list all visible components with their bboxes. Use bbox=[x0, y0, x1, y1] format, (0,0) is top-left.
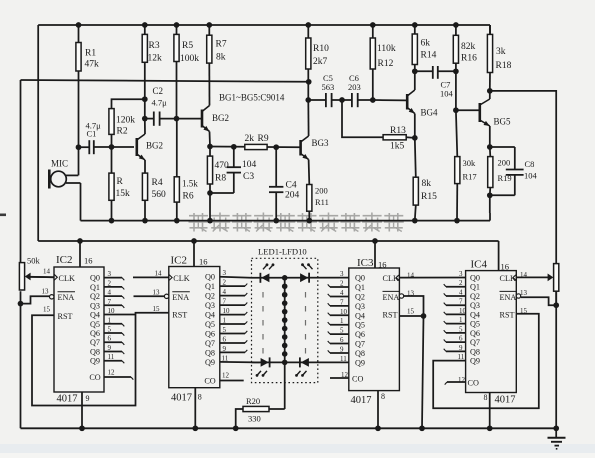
wire top supply rail bbox=[38, 24, 490, 26]
IC1 pin Q9 (11) stub bbox=[90, 353, 124, 366]
svg-text:204: 204 bbox=[285, 191, 300, 201]
svg-text:8k: 8k bbox=[422, 179, 432, 189]
wire LED column to R20 bbox=[284, 362, 286, 409]
node R9/C4 junction bbox=[273, 144, 279, 150]
svg-text:BG2: BG2 bbox=[146, 141, 163, 151]
svg-text:Q0: Q0 bbox=[470, 274, 480, 283]
capacitor C7 104 bbox=[415, 66, 456, 99]
svg-text:Q7: Q7 bbox=[355, 340, 365, 349]
svg-text:RST: RST bbox=[383, 311, 398, 320]
IC2 pin Q6 (5) stub bbox=[205, 326, 247, 339]
svg-text:R13: R13 bbox=[390, 126, 406, 136]
IC3 RST pin label bbox=[383, 308, 415, 320]
node C5-C6 mid junction bbox=[339, 97, 352, 103]
IC3 pin Q5 (1) stub bbox=[328, 317, 365, 330]
resistor R18 3k bbox=[487, 25, 511, 91]
LED bottom-left bbox=[256, 357, 270, 376]
svg-text:16: 16 bbox=[84, 256, 93, 266]
svg-text:13: 13 bbox=[42, 288, 50, 296]
resistor R17 30k bbox=[454, 110, 477, 223]
IC4 pin Q6 (5) stub bbox=[444, 325, 480, 338]
svg-text:Q4: Q4 bbox=[205, 311, 215, 320]
left edge scan mark bbox=[0, 214, 6, 217]
IC2 pin Q7 (6) stub bbox=[205, 335, 247, 348]
svg-text:R4: R4 bbox=[152, 178, 163, 188]
svg-text:CO: CO bbox=[468, 379, 479, 388]
IC1 ENA wire to ground column bbox=[18, 296, 50, 306]
capacitor C8 104 bbox=[506, 147, 538, 195]
capacitor C4 204 bbox=[269, 147, 300, 223]
svg-text:ENA: ENA bbox=[58, 293, 75, 302]
svg-text:CO: CO bbox=[204, 377, 215, 386]
svg-text:Q3: Q3 bbox=[90, 301, 100, 310]
transistor BG3 bbox=[301, 136, 329, 160]
IC1 CLK wire from pot bbox=[29, 276, 54, 278]
wire digital top rail bbox=[38, 240, 498, 242]
IC4 ENA pin label bbox=[500, 289, 528, 302]
IC2 pin16 wire bbox=[191, 238, 197, 266]
node BG5 base junction bbox=[453, 71, 479, 113]
svg-text:CLK: CLK bbox=[173, 274, 189, 283]
wire audio-out bus y80 bbox=[21, 80, 310, 82]
wire BG3 emitter down bbox=[308, 160, 311, 185]
node C7 tap bbox=[412, 65, 418, 75]
svg-text:2k: 2k bbox=[245, 134, 255, 144]
svg-text:BG3: BG3 bbox=[312, 138, 330, 148]
svg-text:1.5k: 1.5k bbox=[182, 179, 198, 189]
svg-text:16: 16 bbox=[378, 260, 387, 270]
svg-text:4017: 4017 bbox=[351, 395, 372, 406]
svg-text:110k: 110k bbox=[377, 44, 396, 54]
wire analog rail right corner to R19 bbox=[489, 213, 491, 221]
svg-text:BG5: BG5 bbox=[494, 117, 512, 127]
ground symbol bbox=[548, 428, 566, 449]
watermark gray text bbox=[189, 213, 404, 232]
resistor R1 47k bbox=[76, 25, 99, 147]
IC U2 (second 4017) box bbox=[169, 267, 220, 388]
IC4 pin Q1 (2) stub bbox=[444, 279, 480, 292]
svg-text:100k: 100k bbox=[180, 54, 199, 64]
svg-text:ENA: ENA bbox=[383, 293, 400, 302]
IC4 pin Q3 (7) stub bbox=[444, 298, 480, 311]
IC2 pin Q2 (4) stub bbox=[205, 288, 247, 301]
IC4 ENA wire bbox=[521, 291, 556, 305]
svg-text:R: R bbox=[117, 177, 124, 187]
svg-text:16: 16 bbox=[199, 257, 208, 267]
wire left border vertical (top rail to digital rail) bbox=[37, 25, 39, 241]
IC1 pin8 wire bbox=[79, 392, 85, 431]
IC3 pin Q3 (7) stub bbox=[328, 298, 365, 311]
svg-text:Q1: Q1 bbox=[355, 283, 365, 292]
transistor BG5 bbox=[480, 99, 511, 127]
svg-text:4017: 4017 bbox=[171, 393, 192, 404]
node R19 bottom junction bbox=[487, 192, 515, 213]
IC1 ENA pin label bbox=[42, 288, 76, 303]
svg-text:Q5: Q5 bbox=[90, 320, 100, 329]
resistor R6 1.5k bbox=[174, 119, 198, 224]
IC2 CLK wire bbox=[133, 276, 169, 278]
svg-text:4017: 4017 bbox=[57, 394, 78, 405]
IC U1 (first 4017) box bbox=[54, 267, 104, 392]
node R5 column C2 tap bbox=[174, 116, 201, 122]
svg-text:C3: C3 bbox=[243, 172, 254, 182]
svg-text:IC3: IC3 bbox=[357, 257, 374, 269]
resistor R19 200 bbox=[488, 147, 512, 195]
resistor R5 100k bbox=[174, 25, 199, 119]
wire BG4 collector up bbox=[414, 71, 416, 90]
svg-text:3: 3 bbox=[459, 270, 463, 278]
node junction top rail R5 bbox=[174, 22, 180, 28]
svg-text:104: 104 bbox=[440, 89, 454, 99]
transistor BG2 (first stage) bbox=[137, 134, 163, 160]
svg-text:R17: R17 bbox=[463, 172, 477, 182]
resistor R10 2k7 bbox=[306, 25, 329, 69]
node C5 line tap bbox=[305, 97, 325, 103]
LED D1 (top-left) bbox=[260, 263, 274, 282]
IC3 pin Q6 (5) stub bbox=[328, 327, 365, 340]
svg-text:R5: R5 bbox=[182, 41, 193, 51]
node audio-out bus end bbox=[306, 69, 312, 100]
svg-text:Q4: Q4 bbox=[355, 311, 365, 320]
svg-text:R8: R8 bbox=[215, 174, 226, 184]
IC4 pin Q7 (6) stub bbox=[444, 335, 480, 348]
node R13/R15 junction bbox=[412, 135, 418, 177]
wire IC1 RST feedback loop bbox=[32, 313, 169, 406]
svg-text:15: 15 bbox=[43, 306, 51, 314]
IC4 pin Q4 (10) stub bbox=[444, 307, 480, 320]
IC3 pin Q9 (11) stub bbox=[340, 355, 365, 368]
wire analog rail left corner up to MIC bbox=[80, 183, 82, 221]
resistor R3 12k bbox=[142, 25, 162, 99]
IC3 pin Q1 (2) stub bbox=[328, 280, 365, 293]
svg-text:14: 14 bbox=[520, 271, 528, 279]
capacitor C1 4.7u bbox=[79, 121, 112, 155]
svg-text:120k: 120k bbox=[116, 116, 135, 126]
svg-text:R12: R12 bbox=[378, 59, 394, 69]
svg-text:11: 11 bbox=[340, 355, 347, 363]
label IC4 4017 bbox=[484, 393, 516, 406]
bottom scanner band bbox=[0, 444, 595, 453]
svg-text:ENA: ENA bbox=[500, 293, 517, 302]
IC3 pin8 wire bbox=[375, 391, 381, 432]
IC4 CLK pin label bbox=[500, 271, 528, 283]
IC3 pin CO (12) stub bbox=[330, 371, 363, 384]
node R3/R2 tap bbox=[142, 96, 148, 118]
wire BG2a collector up bbox=[144, 119, 146, 134]
resistor R4 560 bbox=[142, 173, 166, 223]
IC1 pin Q1 (2) stub bbox=[90, 279, 124, 292]
label IC3 4017 bbox=[351, 392, 386, 406]
node R8 bottom junction bbox=[207, 190, 234, 223]
svg-text:Q2: Q2 bbox=[90, 292, 100, 301]
wire BG5 output line right bbox=[490, 91, 556, 264]
svg-text:R16: R16 bbox=[461, 54, 477, 64]
svg-text:3k: 3k bbox=[496, 47, 506, 57]
wire BG5 emitter down bbox=[489, 126, 491, 147]
node junction top rail R7 bbox=[206, 22, 212, 28]
svg-text:C4: C4 bbox=[286, 181, 297, 191]
label BG1-BG5:C9014 bbox=[219, 93, 285, 103]
svg-text:Q9: Q9 bbox=[355, 358, 365, 367]
IC3 pin Q8 (9) stub bbox=[328, 345, 365, 358]
IC4 pin Q2 (4) stub bbox=[444, 288, 480, 301]
svg-text:C1: C1 bbox=[87, 129, 97, 139]
node R12 bottom junction bbox=[370, 97, 406, 103]
svg-text:BG4: BG4 bbox=[421, 108, 439, 118]
svg-text:8: 8 bbox=[484, 393, 488, 402]
IC3 pin Q2 (4) stub bbox=[328, 289, 365, 302]
wire BG5 collector up bbox=[489, 91, 491, 99]
svg-text:30k: 30k bbox=[463, 158, 477, 168]
node BG2b emitter junction bbox=[207, 144, 245, 150]
capacitor C2 4.7u bbox=[145, 86, 177, 126]
svg-text:Q1: Q1 bbox=[470, 283, 480, 292]
potentiometer 50k bbox=[19, 256, 54, 291]
svg-text:Q6: Q6 bbox=[205, 330, 215, 339]
node junction top rail R10 bbox=[305, 22, 311, 28]
IC3 CLK wire to IC4 Q0 bbox=[399, 277, 465, 279]
resistor R2 120k bbox=[109, 99, 145, 147]
IC3 pin Q0 (3) stub bbox=[340, 270, 365, 283]
svg-text:Q9: Q9 bbox=[205, 358, 215, 367]
svg-text:4017: 4017 bbox=[495, 395, 516, 406]
svg-text:Q3: Q3 bbox=[205, 301, 215, 310]
IC1 pin Q5 (1) stub bbox=[90, 316, 124, 329]
svg-text:LED1-LFD10: LED1-LFD10 bbox=[258, 247, 307, 257]
svg-text:IC2: IC2 bbox=[171, 255, 188, 267]
node C1/R1/MIC junction bbox=[76, 144, 82, 175]
capacitor C6 203 bbox=[348, 73, 373, 107]
svg-text:ENA: ENA bbox=[172, 293, 189, 302]
svg-text:Q3: Q3 bbox=[470, 301, 480, 310]
node junction top rail R16 bbox=[453, 22, 459, 28]
svg-text:12: 12 bbox=[222, 372, 230, 380]
wire BG2a emitter down bbox=[144, 160, 146, 173]
label LED1-LFD10 bbox=[258, 247, 307, 257]
LED omitted-row marks bbox=[263, 292, 306, 354]
IC2 pin Q4 (10) stub bbox=[205, 307, 247, 320]
IC1 pin Q2 (4) stub bbox=[90, 289, 124, 302]
svg-text:BG1~BG5:C9014: BG1~BG5:C9014 bbox=[219, 93, 285, 103]
svg-text:Q7: Q7 bbox=[470, 338, 480, 347]
IC2 ENA pin label bbox=[153, 289, 190, 303]
wire digital bottom rail bbox=[21, 427, 557, 429]
svg-text:3: 3 bbox=[340, 270, 344, 278]
node R16/C7 junction bbox=[453, 68, 459, 74]
svg-text:47k: 47k bbox=[85, 60, 100, 70]
svg-text:Q2: Q2 bbox=[470, 292, 480, 301]
svg-text:Q4: Q4 bbox=[90, 311, 100, 320]
label IC3 name bbox=[357, 257, 387, 270]
wire digital rail right corner to IC4 pin16 bbox=[498, 241, 500, 271]
wire BG2b collector up bbox=[208, 63, 210, 105]
svg-text:Q2: Q2 bbox=[355, 292, 365, 301]
IC3 pin Q4 (10) stub bbox=[328, 308, 365, 321]
resistor R20 330 bbox=[233, 396, 285, 431]
svg-text:82k: 82k bbox=[461, 42, 476, 52]
IC3 CLK pin label bbox=[383, 272, 415, 284]
wire BG2b emitter down bbox=[209, 132, 212, 147]
wire BG4 emitter down bbox=[414, 114, 416, 138]
IC2 pin Q5 (1) stub bbox=[205, 317, 247, 330]
svg-text:BG2: BG2 bbox=[212, 113, 229, 123]
svg-text:Q0: Q0 bbox=[355, 274, 365, 283]
resistor R15 8k bbox=[412, 177, 437, 223]
svg-text:Q5: Q5 bbox=[470, 320, 480, 329]
svg-text:R1: R1 bbox=[85, 49, 96, 59]
node junction top rail R14 bbox=[412, 22, 418, 28]
resistor R 15k bbox=[109, 147, 130, 223]
IC1 pin Q7 (6) stub bbox=[90, 335, 124, 348]
svg-text:RST: RST bbox=[500, 311, 515, 320]
svg-text:50k: 50k bbox=[27, 256, 41, 266]
svg-text:Q4: Q4 bbox=[470, 310, 480, 319]
svg-text:Q7: Q7 bbox=[205, 339, 215, 348]
resistor R13 1k5 bbox=[342, 100, 415, 152]
resistor R11 200 bbox=[306, 185, 328, 224]
svg-text:RST: RST bbox=[172, 310, 187, 319]
IC1 pin Q3 (7) stub bbox=[90, 298, 124, 311]
IC U3 (third 4017) box bbox=[349, 268, 400, 391]
svg-text:2k7: 2k7 bbox=[313, 57, 328, 67]
svg-text:470: 470 bbox=[215, 161, 230, 171]
svg-text:R14: R14 bbox=[421, 51, 437, 61]
svg-text:Q1: Q1 bbox=[90, 283, 100, 292]
svg-text:Q8: Q8 bbox=[355, 349, 365, 358]
svg-text:Q0: Q0 bbox=[90, 274, 100, 283]
IC3 pin16 wire bbox=[372, 238, 378, 268]
svg-text:R10: R10 bbox=[313, 44, 329, 54]
svg-text:Q9: Q9 bbox=[470, 357, 480, 366]
svg-text:Q6: Q6 bbox=[355, 330, 365, 339]
IC4 pin Q8 (9) stub bbox=[444, 344, 480, 357]
svg-text:8k: 8k bbox=[216, 53, 226, 63]
resistor R8 470 bbox=[207, 147, 229, 194]
svg-text:Q2: Q2 bbox=[205, 292, 215, 301]
svg-text:R11: R11 bbox=[315, 197, 329, 207]
IC1 pin Q0 (3) stub bbox=[90, 270, 124, 283]
label IC1 4017 bbox=[57, 394, 90, 405]
IC3 pin Q7 (6) stub bbox=[328, 336, 365, 349]
svg-text:6k: 6k bbox=[421, 39, 431, 49]
IC4 RST/Q9 feedback wire bbox=[433, 314, 539, 408]
microphone MIC bbox=[49, 159, 80, 189]
LED array dashed box bbox=[252, 258, 318, 382]
resistor R9 2k bbox=[245, 134, 301, 150]
wire outer-left vertical to 50k pot bbox=[20, 80, 22, 264]
svg-text:200: 200 bbox=[498, 158, 511, 168]
svg-text:104: 104 bbox=[242, 160, 257, 170]
transistor BG2 (second stage) bbox=[202, 106, 229, 132]
node junction top rail R3 bbox=[142, 22, 148, 28]
svg-text:Q5: Q5 bbox=[205, 320, 215, 329]
node BG2a base node bbox=[109, 144, 134, 150]
svg-text:Q9: Q9 bbox=[90, 357, 100, 366]
IC2 pin CO (12) stub bbox=[204, 372, 243, 386]
IC U4 (fourth 4017) box bbox=[466, 271, 517, 393]
resistor R7 8k bbox=[207, 25, 227, 63]
svg-text:330: 330 bbox=[248, 414, 261, 424]
svg-text:RST: RST bbox=[58, 312, 73, 321]
svg-text:Q8: Q8 bbox=[90, 347, 100, 356]
svg-text:Q3: Q3 bbox=[355, 302, 365, 311]
svg-text:R15: R15 bbox=[421, 192, 437, 202]
resistor R14 6k bbox=[412, 25, 436, 65]
svg-text:MIC: MIC bbox=[51, 159, 68, 169]
svg-text:R6: R6 bbox=[183, 192, 194, 202]
svg-text:13: 13 bbox=[153, 289, 161, 297]
svg-text:Q8: Q8 bbox=[470, 347, 480, 356]
node junction top rail R1 bbox=[76, 22, 82, 28]
node C2 left tap bbox=[142, 116, 148, 122]
svg-text:15: 15 bbox=[153, 305, 161, 313]
capacitor C5 563 bbox=[322, 73, 343, 107]
svg-text:12: 12 bbox=[108, 369, 116, 377]
IC2 pin Q3 (7) stub bbox=[205, 298, 247, 311]
wire pot column to bottom rail bbox=[20, 291, 22, 428]
svg-text:9: 9 bbox=[86, 394, 90, 403]
svg-text:Q6: Q6 bbox=[470, 329, 480, 338]
IC1 pin Q6 (5) stub bbox=[90, 326, 124, 339]
svg-text:4.7μ: 4.7μ bbox=[152, 98, 168, 108]
label IC2 name bbox=[171, 255, 208, 267]
svg-text:Q6: Q6 bbox=[90, 329, 100, 338]
svg-text:563: 563 bbox=[322, 82, 335, 92]
IC1 pin Q8 (9) stub bbox=[90, 344, 124, 357]
IC3 ENA pin label bbox=[383, 290, 415, 302]
IC1 pin CO (12) stub bbox=[89, 369, 133, 383]
node R19 top junction bbox=[487, 144, 515, 150]
node R18 bottom junction bbox=[487, 88, 493, 94]
svg-text:1k5: 1k5 bbox=[390, 142, 405, 152]
node junction top rail R12 bbox=[370, 22, 376, 28]
IC2 pin Q9 (11) stub bbox=[205, 354, 260, 367]
svg-text:8: 8 bbox=[198, 393, 202, 402]
IC4 pin8 wire bbox=[487, 393, 493, 432]
wire top rail right corner bbox=[489, 25, 491, 34]
wire analog bottom rail bbox=[81, 220, 491, 222]
svg-text:R9: R9 bbox=[258, 134, 269, 144]
node IC4 ENA junction bbox=[553, 302, 559, 308]
IC2 pin8 wire bbox=[192, 388, 198, 431]
svg-text:R3: R3 bbox=[149, 41, 160, 51]
node bottom rail right end bbox=[553, 425, 559, 431]
IC1 RST pin label bbox=[43, 306, 73, 321]
svg-text:11: 11 bbox=[458, 353, 465, 361]
svg-text:14: 14 bbox=[155, 270, 163, 278]
svg-text:Q5: Q5 bbox=[355, 321, 365, 330]
svg-text:CO: CO bbox=[352, 375, 363, 384]
IC2 RST pin label bbox=[153, 305, 188, 319]
svg-text:16: 16 bbox=[501, 262, 510, 272]
IC2 pin Q8 (9) stub bbox=[205, 345, 247, 358]
svg-text:12k: 12k bbox=[148, 54, 163, 64]
wire LED top row bbox=[252, 277, 349, 279]
capacitor C3 104 bbox=[227, 144, 257, 193]
IC1 pin16 wire bbox=[77, 238, 83, 267]
wire LED bottom row bbox=[252, 361, 349, 363]
svg-text:Q8: Q8 bbox=[205, 348, 215, 357]
svg-text:CLK: CLK bbox=[59, 274, 75, 283]
resistor R16 82k bbox=[453, 25, 477, 71]
label IC2 4017 bbox=[171, 393, 202, 404]
potentiometer right (IC4 clock) bbox=[516, 264, 559, 429]
svg-text:C2: C2 bbox=[153, 86, 164, 96]
svg-text:IC2: IC2 bbox=[56, 254, 73, 266]
IC1 CLK pin label bbox=[43, 268, 75, 283]
IC4 pin Q5 (1) stub bbox=[444, 316, 480, 329]
svg-text:8: 8 bbox=[381, 392, 385, 401]
